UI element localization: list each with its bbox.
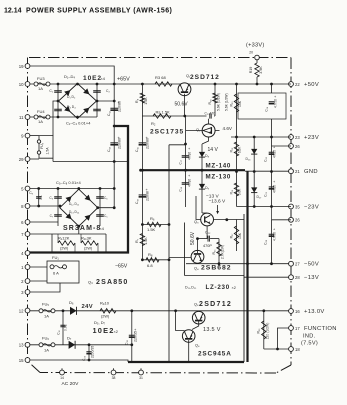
svg-text:3.9K: 3.9K: [259, 66, 263, 74]
svg-text:24V: 24V: [82, 304, 94, 310]
svg-text:4.6V: 4.6V: [223, 126, 233, 131]
svg-text:FU₆: FU₆: [42, 336, 49, 341]
svg-text:D₈: D₈: [205, 154, 210, 158]
svg-text:6 A: 6 A: [53, 271, 59, 276]
svg-text:19: 19: [19, 64, 24, 69]
svg-text:13.5 V: 13.5 V: [203, 327, 221, 333]
svg-text:Q₃: Q₃: [88, 280, 93, 285]
svg-text:IND.: IND.: [303, 334, 316, 340]
svg-text:C₁₆: C₁₆: [135, 198, 139, 204]
svg-text:−65V: −65V: [115, 264, 128, 270]
svg-text:FU4: FU4: [37, 109, 45, 114]
svg-text:C₉: C₉: [29, 191, 33, 195]
svg-text:−13.6 V: −13.6 V: [209, 199, 226, 205]
svg-text:10: 10: [19, 82, 24, 87]
svg-text:MZ-130: MZ-130: [206, 174, 232, 181]
svg-text:D₅, D₇: D₅, D₇: [94, 320, 106, 325]
svg-text:47/16: 47/16: [188, 179, 192, 187]
svg-text:C₁–C₄ 0.01×4: C₁–C₄ 0.01×4: [66, 121, 91, 126]
svg-text:R₁₃: R₁₃: [230, 101, 234, 107]
svg-text:D₁ D₂: D₁ D₂: [67, 95, 76, 99]
svg-text:(7.5V): (7.5V): [301, 341, 318, 347]
svg-text:2200/35: 2200/35: [91, 346, 95, 358]
svg-text:R₈: R₈: [148, 252, 153, 257]
svg-text:20: 20: [249, 51, 253, 55]
svg-text:×2: ×2: [232, 286, 236, 290]
svg-text:C₇: C₇: [50, 214, 53, 218]
svg-text:4.7/50: 4.7/50: [273, 232, 277, 241]
svg-text:1.5K: 1.5K: [147, 227, 156, 232]
svg-text:0.1: 0.1: [39, 195, 43, 200]
svg-text:C₂₅: C₂₅: [264, 191, 268, 197]
svg-text:C₁₇: C₁₇: [179, 160, 183, 164]
svg-text:22: 22: [295, 82, 300, 87]
svg-text:D₁₃ D₁₄: D₁₃ D₁₄: [69, 210, 80, 214]
svg-text:(+33V): (+33V): [246, 43, 264, 49]
svg-text:(2W): (2W): [101, 315, 110, 319]
svg-text:R₉10: R₉10: [100, 301, 110, 306]
svg-text:14 V: 14 V: [208, 147, 219, 153]
svg-text:C₂₂: C₂₂: [205, 231, 211, 235]
svg-text:2SC945A: 2SC945A: [198, 351, 232, 358]
svg-text:LZ-230: LZ-230: [206, 284, 230, 291]
svg-text:R₁₄: R₁₄: [229, 189, 233, 194]
svg-text:21: 21: [295, 169, 300, 174]
svg-text:C₁₀: C₁₀: [57, 329, 61, 334]
svg-text:×4: ×4: [100, 227, 104, 231]
svg-text:D₁₇: D₁₇: [257, 195, 263, 199]
svg-text:−13V: −13V: [304, 275, 319, 281]
svg-text:29: 29: [19, 157, 24, 162]
svg-text:1.5K: 1.5K: [144, 97, 148, 105]
svg-text:47/16: 47/16: [188, 152, 192, 160]
svg-text:47/25: 47/25: [273, 185, 277, 193]
svg-text:FU₂: FU₂: [40, 142, 44, 149]
svg-text:120 (1/2W): 120 (1/2W): [265, 323, 269, 340]
svg-text:R₂: R₂: [151, 121, 156, 126]
svg-text:13: 13: [19, 343, 24, 348]
svg-text:+65V: +65V: [117, 77, 130, 83]
svg-text:+23V: +23V: [304, 135, 319, 141]
svg-text:5.6K (1/2W): 5.6K (1/2W): [225, 93, 229, 111]
svg-text:R19: R19: [249, 67, 253, 74]
svg-text:11: 11: [19, 115, 24, 120]
svg-text:Rs 1.5K: Rs 1.5K: [156, 110, 171, 115]
svg-text:47/25: 47/25: [273, 150, 277, 158]
svg-text:C₁₅: C₁₅: [135, 146, 139, 152]
svg-text:D₁₂ D₁₅: D₁₂ D₁₅: [69, 202, 80, 206]
svg-text:MZ-140: MZ-140: [206, 162, 232, 169]
svg-text:R₁12K: R₁12K: [58, 236, 70, 241]
svg-text:14: 14: [60, 376, 64, 380]
svg-text:D₆: D₆: [69, 300, 74, 305]
svg-text:C₁₆: C₁₆: [179, 186, 183, 191]
svg-text:R₁₇: R₁₇: [230, 233, 234, 239]
svg-text:220/8l: 220/8l: [146, 191, 150, 201]
svg-text:17: 17: [295, 326, 300, 331]
svg-text:C₂₆: C₂₆: [264, 239, 268, 245]
svg-text:×2: ×2: [114, 330, 118, 334]
svg-text:1A: 1A: [38, 86, 43, 91]
svg-text:R₁₈: R₁₈: [208, 99, 212, 105]
svg-text:POWER SUPPLY ASSEMBLY (AWR-156: POWER SUPPLY ASSEMBLY (AWR-156): [26, 8, 172, 15]
svg-text:220/35: 220/35: [134, 331, 138, 342]
svg-text:C₁₄: C₁₄: [107, 110, 111, 116]
svg-text:470P: 470P: [203, 244, 212, 248]
svg-text:SR3AM-8: SR3AM-8: [63, 225, 101, 232]
svg-text:27: 27: [295, 262, 300, 267]
svg-text:1.5K: 1.5K: [144, 237, 148, 245]
svg-text:5.6K (1/2W): 5.6K (1/2W): [217, 93, 221, 111]
svg-text:16: 16: [295, 309, 300, 314]
svg-text:2SD712: 2SD712: [199, 301, 232, 308]
svg-text:50.6V: 50.6V: [190, 231, 196, 245]
svg-text:C₁₃: C₁₃: [125, 339, 129, 345]
svg-text:R₁₁3K: R₁₁3K: [81, 236, 92, 241]
svg-text:R₄: R₄: [135, 98, 139, 103]
svg-text:2SA850: 2SA850: [96, 279, 129, 286]
svg-text:35: 35: [295, 204, 300, 209]
svg-text:2SB682: 2SB682: [201, 265, 232, 272]
svg-text:15K: 15K: [238, 100, 242, 107]
svg-text:D₇: D₇: [67, 336, 72, 341]
svg-text:C₁₉: C₁₉: [265, 106, 269, 111]
svg-text:FU3: FU3: [37, 76, 45, 81]
svg-text:D₉: D₉: [205, 186, 210, 190]
svg-text:+13.0V: +13.0V: [304, 309, 325, 315]
svg-text:1A: 1A: [44, 348, 49, 353]
svg-text:31: 31: [139, 376, 143, 380]
svg-text:R3 68: R3 68: [155, 75, 166, 80]
svg-text:FU₁: FU₁: [52, 255, 59, 260]
svg-text:R₁₅: R₁₅: [212, 249, 216, 255]
svg-text:38: 38: [112, 376, 116, 380]
svg-text:2.7K(2W): 2.7K(2W): [221, 245, 225, 259]
svg-text:50.6V: 50.6V: [175, 102, 189, 108]
svg-text:Q₄: Q₄: [194, 267, 199, 271]
svg-text:Q₃: Q₃: [194, 220, 199, 224]
svg-text:10E2: 10E2: [93, 326, 115, 335]
svg-text:C₂₄: C₂₄: [264, 156, 268, 162]
svg-text:−23V: −23V: [304, 205, 319, 211]
svg-text:1A: 1A: [44, 314, 49, 319]
svg-text:1A: 1A: [38, 119, 43, 124]
svg-text:10E2: 10E2: [83, 75, 102, 82]
svg-text:26: 26: [295, 218, 300, 223]
svg-text:6.2K: 6.2K: [238, 146, 242, 153]
svg-text:2SC1735: 2SC1735: [150, 129, 184, 136]
svg-text:18: 18: [295, 347, 300, 352]
svg-text:23: 23: [295, 135, 300, 140]
svg-text:2SD712: 2SD712: [190, 74, 220, 81]
svg-text:1.5A: 1.5A: [46, 147, 50, 155]
svg-text:4.7/50: 4.7/50: [274, 99, 278, 108]
svg-text:C₅–C₈ 0.01×4: C₅–C₈ 0.01×4: [56, 180, 82, 185]
svg-text:(2W): (2W): [84, 247, 93, 251]
svg-text:(2W): (2W): [60, 247, 69, 251]
svg-text:D₃ D₄: D₃ D₄: [67, 105, 76, 109]
svg-text:12: 12: [19, 308, 24, 313]
svg-text:C₁₂: C₁₂: [107, 146, 111, 152]
svg-text:×4: ×4: [101, 77, 105, 81]
svg-text:D₁₀,D₁₁: D₁₀,D₁₁: [185, 286, 197, 290]
svg-text:15K: 15K: [238, 232, 242, 239]
svg-text:FUNCTION: FUNCTION: [304, 326, 337, 332]
svg-text:28: 28: [295, 275, 300, 280]
svg-text:26: 26: [295, 144, 300, 149]
svg-text:12.14: 12.14: [4, 8, 22, 15]
svg-text:15: 15: [19, 358, 24, 363]
svg-text:+50V: +50V: [304, 82, 319, 88]
svg-text:Q₆: Q₆: [195, 344, 200, 348]
svg-text:0.01: 0.01: [64, 324, 68, 331]
svg-text:FU₅: FU₅: [42, 302, 49, 307]
svg-text:GND: GND: [304, 169, 318, 175]
svg-text:R₆: R₆: [150, 216, 155, 221]
svg-text:R₁₆: R₁₆: [257, 328, 261, 334]
svg-text:AC 20V: AC 20V: [62, 381, 80, 387]
svg-text:5.6K: 5.6K: [238, 188, 242, 195]
svg-text:−50V: −50V: [304, 262, 319, 268]
svg-text:D₁–D₄: D₁–D₄: [64, 74, 75, 79]
svg-text:6.8: 6.8: [147, 263, 153, 268]
svg-text:R₁₃: R₁₃: [229, 147, 233, 152]
svg-text:D₁₆: D₁₆: [246, 157, 252, 161]
svg-text:Q₂: Q₂: [196, 128, 201, 132]
